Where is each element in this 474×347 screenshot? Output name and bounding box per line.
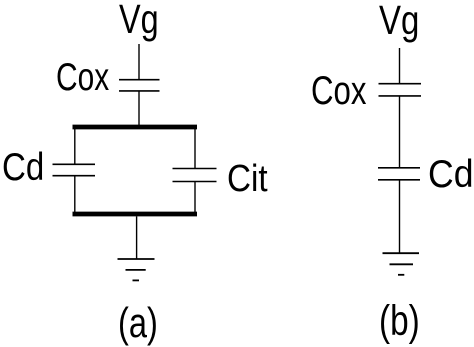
- capacitor Cox (b): [379, 84, 422, 96]
- wire Cd to bottom bar (a): [74, 176, 76, 214]
- ground (a): [118, 259, 155, 280]
- wire Vg lead to Cox (b): [399, 48, 401, 84]
- wire top bar to Cd (a): [74, 127, 76, 164]
- value label Cd (b): [428, 156, 473, 195]
- wire Vg lead to Cox (a): [138, 44, 140, 80]
- node label Vg (b): [379, 0, 419, 41]
- value label Cit (a): [227, 160, 268, 198]
- wire Cox to Cd (b): [399, 96, 401, 168]
- capacitor Cit (a): [173, 169, 217, 182]
- node bottom bar (a): [73, 212, 198, 217]
- value label Cd (a): [2, 148, 44, 187]
- value label Cox (a): [56, 58, 109, 97]
- capacitor Cd (b): [378, 168, 420, 180]
- node label Vg (a): [119, 0, 159, 40]
- wire Cit to bottom bar (a): [194, 182, 196, 215]
- ground (b): [383, 253, 420, 275]
- wire bottom bar to ground (a): [136, 216, 138, 259]
- node top bar (a): [73, 125, 198, 130]
- wire Cox to top node bar (a): [138, 91, 140, 125]
- capacitor Cox (a): [119, 80, 160, 91]
- wire top bar to Cit (a): [194, 127, 196, 169]
- caption (b): [379, 300, 420, 343]
- value label Cox (b): [311, 71, 366, 111]
- capacitor Cd (a): [53, 164, 96, 175]
- wire Cd to ground (b): [399, 180, 401, 253]
- caption (a): [118, 302, 158, 344]
